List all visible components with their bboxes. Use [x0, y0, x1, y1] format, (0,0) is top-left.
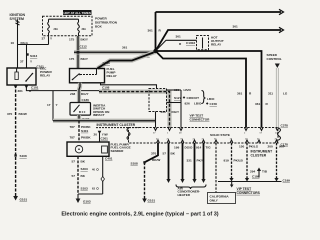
wire 238 DG/Y from relay to inertia switch (highlighted) [70, 83, 90, 103]
svg-text:175: 175 [69, 38, 74, 42]
fuel pump / fuel gauge sender [67, 142, 131, 160]
EEC power relay K1 [7, 65, 52, 90]
svg-text:361: 361 [255, 102, 260, 106]
wire sender right branch [78, 156, 105, 194]
svg-text:199: 199 [174, 146, 179, 150]
svg-text:LB/O: LB/O [207, 97, 215, 101]
svg-text:57: 57 [72, 174, 76, 178]
svg-text:787: 787 [70, 135, 75, 139]
wire 294 T/B with up arrow [250, 168, 268, 179]
power distribution box (dashed) [43, 16, 118, 36]
svg-text:BK: BK [171, 152, 176, 156]
svg-text:SENDER: SENDER [111, 149, 125, 153]
wire 200 W/P [268, 143, 285, 182]
svg-text:57: 57 [72, 159, 76, 163]
svg-text:SYSTEM: SYSTEM [10, 17, 24, 21]
svg-text:G101: G101 [148, 199, 156, 203]
svg-text:361: 361 [148, 29, 153, 33]
wire 331 PK/Y to AC heater [187, 143, 205, 183]
EEC pin ticks top [153, 128, 279, 144]
svg-text:S403: S403 [81, 167, 89, 171]
svg-text:20: 20 [94, 132, 98, 136]
hot output relay (dashed) [197, 35, 224, 50]
instrument cluster label (left) [96, 123, 139, 127]
svg-text:BK/Y: BK/Y [81, 57, 89, 61]
svg-text:HEATER: HEATER [178, 193, 191, 197]
ground G101 [13, 196, 27, 202]
svg-text:S103: S103 [81, 187, 89, 191]
svg-text:BK/W: BK/W [152, 158, 160, 162]
svg-text:PK/LB: PK/LB [234, 159, 244, 163]
svg-text:LG: LG [283, 92, 288, 96]
svg-text:CONNECTOR: CONNECTOR [190, 118, 211, 122]
VIP test connector box (dashed) [149, 88, 217, 128]
wire: 175 BK/Y from fuse to bus (highlighted) [69, 36, 89, 69]
ignition system label [10, 13, 26, 21]
svg-text:150: 150 [239, 145, 244, 149]
svg-text:370: 370 [151, 152, 156, 156]
california only box [208, 193, 236, 204]
svg-text:DG/Y: DG/Y [81, 92, 90, 96]
svg-text:T/G: T/G [206, 146, 212, 150]
fuses 20A and 30A inside power distribution box [48, 19, 87, 36]
VIP test connectors label [237, 187, 261, 195]
svg-text:S108: S108 [20, 154, 28, 158]
air conditioner heater brace [176, 185, 206, 198]
wire: fuse output 37 Y [42, 36, 54, 44]
svg-text:S313: S313 [30, 54, 38, 58]
svg-text:919: 919 [224, 159, 229, 163]
svg-text:BK: BK [81, 159, 86, 163]
svg-text:175: 175 [69, 57, 74, 61]
second wire to right with arrow [156, 25, 284, 52]
wire 150 PK/LG [239, 143, 259, 182]
svg-text:311: 311 [268, 92, 273, 96]
svg-text:30A: 30A [82, 28, 87, 31]
wire 919 PK/LB [224, 143, 244, 182]
speed control [267, 53, 288, 128]
svg-text:BK: BK [81, 174, 86, 178]
wire 57 BK sender left to ground [72, 156, 89, 194]
svg-text:DG/Y: DG/Y [172, 110, 181, 114]
svg-text:RELAY: RELAY [211, 42, 222, 46]
svg-text:361: 361 [122, 46, 127, 50]
wire up from junction [148, 12, 162, 51]
svg-text:G101: G101 [20, 198, 28, 202]
svg-text:LB/O: LB/O [194, 102, 202, 106]
ground wire 370 BK/W from relay [7, 85, 27, 196]
wire label 37 Y at relay coil [20, 60, 33, 64]
wire corner to EEC pin x261.5 [156, 51, 269, 128]
svg-text:C186: C186 [252, 175, 260, 179]
VIP test rail [218, 178, 290, 187]
svg-text:C158: C158 [210, 102, 218, 106]
wire 381 R from EEC power relay [18, 85, 102, 93]
svg-text:C112: C112 [80, 45, 88, 49]
svg-text:787: 787 [70, 125, 75, 129]
svg-text:17: 17 [47, 103, 51, 107]
ground G101 right [142, 199, 155, 203]
svg-text:C199: C199 [283, 178, 291, 182]
HOT AT ALL TIMES box [63, 10, 92, 15]
svg-text:914: 914 [196, 146, 201, 150]
svg-text:361: 361 [237, 92, 242, 96]
wire 370 BK/W from EEC to ground [131, 143, 161, 199]
svg-text:16: 16 [11, 41, 15, 45]
svg-text:CONNECTORS: CONNECTORS [237, 191, 261, 195]
svg-text:BK/W: BK/W [19, 112, 27, 116]
svg-text:381: 381 [18, 89, 23, 93]
junction S134 [143, 49, 158, 57]
svg-text:200: 200 [268, 145, 273, 149]
svg-text:DG/O: DG/O [185, 146, 194, 150]
svg-text:C105: C105 [103, 61, 111, 65]
VIP test connector label [190, 114, 211, 122]
wire 199 DG/O to AC heater [174, 143, 193, 183]
svg-text:C186: C186 [82, 98, 90, 102]
svg-text:CIRCUIT: CIRCUIT [187, 96, 200, 100]
svg-text:ONLY: ONLY [210, 199, 219, 203]
wire 57 BK from EEC module [163, 143, 176, 183]
svg-text:37: 37 [20, 60, 24, 64]
svg-text:C378: C378 [281, 124, 289, 128]
horizontal bus y120.7 (highlighted) [53, 119, 156, 123]
fuel pump relay K2 [70, 61, 157, 89]
svg-text:BK/Y: BK/Y [81, 38, 89, 42]
instrument cluster label (right) [251, 150, 273, 158]
svg-text:C108: C108 [102, 85, 110, 89]
svg-text:CLUSTER: CLUSTER [251, 153, 267, 157]
svg-text:SOLID STATE: SOLID STATE [210, 133, 230, 137]
svg-text:S401: S401 [81, 129, 89, 133]
svg-text:37: 37 [42, 37, 46, 41]
svg-text:C1003: C1003 [186, 41, 195, 45]
svg-text:INSTRUMENT CLUSTER: INSTRUMENT CLUSTER [97, 123, 136, 127]
svg-text:361: 361 [176, 35, 181, 39]
svg-text:RELAY: RELAY [40, 74, 51, 78]
svg-text:HOT AT ALL TIMES: HOT AT ALL TIMES [64, 11, 91, 15]
wire: jog to splice S313 [18, 45, 49, 69]
svg-text:C101: C101 [31, 86, 39, 90]
svg-text:361: 361 [233, 25, 238, 29]
wire corner to EEC pin x246 [156, 51, 253, 128]
svg-text:IMPACT: IMPACT [93, 113, 105, 117]
wire 17 Y instrument feed [47, 91, 59, 121]
svg-text:Electronic engine controls, 2.: Electronic engine controls, 2.9L engine … [61, 212, 218, 218]
wire VIP test connector to EEC pin [155, 112, 157, 128]
svg-text:BOX: BOX [95, 25, 103, 29]
bus wire at y52 (highlighted) [74, 51, 156, 54]
svg-text:PK/BK: PK/BK [81, 135, 91, 139]
svg-text:370: 370 [7, 112, 12, 116]
EEC module band (dashed) [127, 124, 288, 147]
wire diagonal from junction to fuel pump relay [98, 53, 154, 69]
svg-text:S108: S108 [131, 162, 139, 166]
top wire to right with arrow [156, 9, 284, 14]
svg-text:W/P: W/P [279, 145, 285, 149]
svg-text:294: 294 [250, 170, 255, 174]
svg-text:G103: G103 [83, 200, 91, 204]
wire 914 T/G to AC heater [196, 143, 211, 183]
svg-text:238: 238 [70, 92, 75, 96]
svg-text:RELAY: RELAY [107, 74, 118, 78]
inertia switch (dashed) [70, 103, 110, 118]
svg-text:T/B: T/B [262, 170, 268, 174]
wire 787 PK/BK inertia to fuel pump [70, 121, 92, 142]
svg-text:PK/LG: PK/LG [249, 145, 259, 149]
wire to california box [215, 143, 217, 193]
wire 20 Y/W cluster to sender [94, 131, 109, 142]
svg-text:CONTROL: CONTROL [267, 57, 282, 61]
svg-text:331: 331 [187, 159, 192, 163]
wire to hot output relay [156, 35, 197, 52]
svg-text:926: 926 [185, 102, 190, 106]
svg-text:LB/O: LB/O [184, 88, 192, 92]
svg-text:236: 236 [161, 110, 166, 114]
svg-text:C401: C401 [105, 156, 113, 160]
svg-text:C301: C301 [101, 136, 109, 140]
wire 236 DG/Y fuel pump circuit to EEC module (highlighted) [99, 92, 180, 128]
svg-text:20A: 20A [54, 28, 59, 31]
svg-text:S127: S127 [174, 96, 182, 100]
svg-text:57: 57 [163, 152, 167, 156]
wire: ignition feed 16 R/LG [11, 20, 29, 69]
wire inertia to bus [79, 115, 90, 121]
ground G103 [76, 194, 91, 204]
